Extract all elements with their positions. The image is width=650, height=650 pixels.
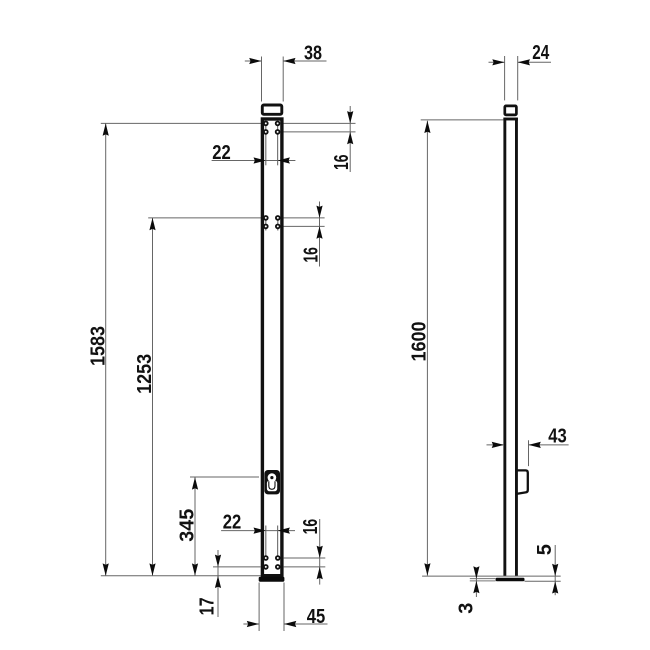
inner slot stubs set2 <box>265 219 267 231</box>
svg-text:38: 38 <box>304 43 322 65</box>
plate edge lines left (3 dim ext) <box>470 578 496 580</box>
post cap left view <box>262 105 282 114</box>
svg-text:1583: 1583 <box>87 326 109 366</box>
dimension 1253 <box>152 218 154 576</box>
plate bottom line right segment <box>525 580 561 582</box>
hole row line set2 row1 <box>148 217 261 219</box>
svg-text:24: 24 <box>532 42 550 64</box>
dimension 43 <box>487 444 505 446</box>
inner slot lines bottom set <box>265 526 267 559</box>
extension line 43 (latch face) <box>528 440 530 466</box>
extension line 24 right <box>517 56 519 100</box>
svg-text:17: 17 <box>196 597 218 615</box>
dimension 5 <box>554 545 556 595</box>
hole row line top set row1 <box>101 122 261 124</box>
latch detail <box>517 470 528 494</box>
dimension 3 <box>475 568 477 597</box>
post cap right view <box>505 106 517 115</box>
holes bottom set <box>264 556 268 560</box>
svg-text:22: 22 <box>223 512 242 534</box>
dimension 345 <box>190 476 259 478</box>
hole row line top set row2 <box>283 131 355 133</box>
extension line 24 left <box>504 56 506 100</box>
svg-text:345: 345 <box>177 509 199 542</box>
svg-text:45: 45 <box>307 606 326 628</box>
holes set2 <box>264 216 268 220</box>
svg-text:3: 3 <box>455 603 477 614</box>
inner slot lines top set <box>265 125 267 166</box>
dimension 22 bottom <box>221 530 295 532</box>
extension line 38 left <box>261 57 263 102</box>
extension line 1600 top <box>421 119 504 121</box>
dimension 22 top <box>212 160 296 162</box>
svg-text:1253: 1253 <box>134 354 156 394</box>
svg-text:16: 16 <box>301 247 323 263</box>
base plate right view <box>496 578 525 582</box>
svg-text:1600: 1600 <box>409 322 431 362</box>
svg-text:16: 16 <box>300 519 322 535</box>
dimension 17 <box>213 566 261 568</box>
bottom reference line right view <box>422 575 561 577</box>
dimension 1583 <box>105 123 107 575</box>
bottom reference line (post bottom extended left) <box>101 575 261 577</box>
dimension 45 <box>243 623 259 625</box>
dimension 16 middle <box>319 202 321 267</box>
holes top set <box>264 122 268 126</box>
svg-text:16: 16 <box>331 155 353 171</box>
extension line 38 right <box>282 57 284 102</box>
hole row line set2 row2 <box>283 225 324 227</box>
svg-text:5: 5 <box>534 544 556 555</box>
base plate left view <box>259 577 285 582</box>
post body left view <box>262 119 282 576</box>
svg-text:43: 43 <box>548 426 567 448</box>
post body right view <box>503 118 517 576</box>
lock cylinder <box>264 470 280 494</box>
hole row lines bottom right (16) <box>283 557 325 559</box>
dimension line 38 <box>245 60 262 62</box>
dimension 16 top <box>349 106 351 172</box>
extension lines 45 <box>258 583 260 632</box>
dimension 16 bottom <box>319 519 321 585</box>
dimension 1600 <box>426 121 428 576</box>
dimension line 24 <box>489 61 505 63</box>
svg-text:22: 22 <box>212 142 231 164</box>
